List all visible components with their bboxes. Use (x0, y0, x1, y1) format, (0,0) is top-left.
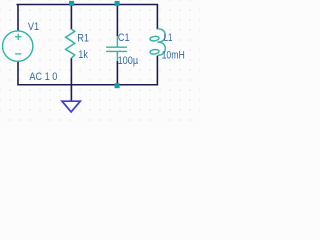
svg-text:1k: 1k (78, 49, 88, 61)
inductor L1 (150, 29, 166, 55)
wire C1 top (116, 5, 118, 37)
wire top rail (17, 4, 157, 6)
wire V1 bottom (17, 62, 19, 85)
svg-text:L1: L1 (164, 32, 173, 44)
resistor R1 (66, 29, 75, 58)
svg-text:AC 1 0: AC 1 0 (29, 71, 57, 83)
svg-text:C1: C1 (118, 32, 130, 44)
wire L1 top (156, 5, 158, 30)
junction C1 bottom (115, 83, 120, 88)
svg-text:100µ: 100µ (118, 55, 139, 67)
wire ground stub (70, 85, 72, 101)
voltage source V1 (3, 31, 33, 61)
junction R1 top (69, 1, 74, 6)
capacitor C1 (106, 36, 127, 61)
wire bottom rail (18, 84, 157, 86)
wire R1 bottom (70, 58, 72, 84)
wire C1 bottom (116, 61, 118, 85)
svg-text:V1: V1 (28, 21, 39, 33)
svg-text:R1: R1 (77, 33, 89, 45)
wire L1 bottom (156, 56, 158, 85)
ground (62, 101, 80, 112)
wire from V1 top to top rail (17, 5, 19, 31)
wire R1 top (70, 5, 72, 30)
junction C1 top (115, 1, 120, 6)
svg-text:10mH: 10mH (162, 50, 185, 62)
